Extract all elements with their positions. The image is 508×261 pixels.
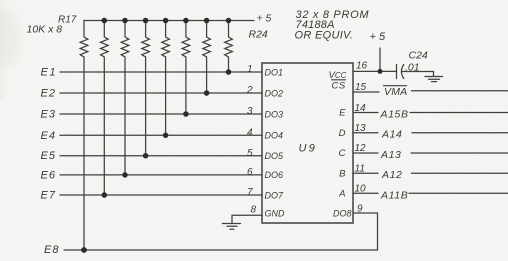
svg-text:E3: E3	[41, 109, 56, 121]
svg-text:A: A	[338, 188, 345, 199]
svg-text:A15B: A15B	[380, 109, 409, 121]
svg-text:12: 12	[355, 143, 367, 154]
svg-text:6: 6	[247, 167, 253, 178]
resistor R17-5	[162, 21, 170, 136]
svg-text:13: 13	[355, 123, 367, 134]
svg-text:E: E	[339, 108, 346, 119]
resistor R24	[225, 21, 233, 73]
junction dots on +5 bus	[102, 18, 232, 24]
wire E1 to pin 1	[60, 71, 262, 73]
svg-text:C24: C24	[409, 50, 428, 62]
wire E3 to pin 3	[60, 113, 262, 115]
wire pin 15 stub	[353, 91, 379, 93]
svg-text:10: 10	[355, 184, 367, 195]
svg-text:DO1: DO1	[265, 67, 284, 77]
resistor R17-3	[121, 21, 129, 175]
+5 feed wire	[379, 48, 381, 71]
wire pin 13 stub	[353, 132, 378, 134]
svg-text:OR EQUIV.: OR EQUIV.	[295, 30, 354, 42]
wire C24 to ground	[402, 72, 434, 77]
svg-text:+ 5: + 5	[257, 13, 272, 25]
wire E2 to pin 2	[60, 92, 262, 94]
svg-text:A12: A12	[381, 169, 402, 181]
svg-text:VMA: VMA	[384, 86, 407, 98]
svg-text:10K x 8: 10K x 8	[27, 24, 63, 36]
resistor R17-6	[182, 21, 190, 115]
svg-text:B: B	[339, 169, 346, 180]
svg-text:11: 11	[355, 163, 365, 174]
wire E7 to pin 7	[60, 194, 262, 196]
svg-text:.01: .01	[405, 61, 420, 73]
svg-text:C: C	[339, 148, 346, 159]
svg-text:DO6: DO6	[265, 170, 284, 180]
wire pin 16 to +5 and C24	[353, 70, 396, 72]
svg-text:A13: A13	[380, 149, 401, 161]
svg-text:2: 2	[246, 85, 253, 96]
resistor R17-4	[142, 21, 150, 156]
svg-text:R24: R24	[249, 29, 268, 41]
svg-text:A11B: A11B	[380, 190, 408, 202]
svg-text:DO2: DO2	[265, 88, 284, 98]
svg-text:VCC: VCC	[329, 70, 347, 81]
overline VMA	[384, 85, 407, 87]
svg-text:DO4: DO4	[265, 131, 284, 141]
svg-text:+ 5: + 5	[370, 31, 386, 43]
wire E8 to pin 9	[64, 213, 378, 250]
wire net A14	[412, 132, 508, 134]
junction dots on E lines	[81, 69, 231, 253]
svg-text:1: 1	[247, 64, 253, 75]
overline CS (inside U9)	[332, 79, 346, 81]
svg-text:3: 3	[247, 106, 253, 117]
resistor R17-7	[203, 21, 211, 94]
svg-text:GND: GND	[265, 209, 286, 219]
wire net VMA	[412, 90, 508, 92]
IC U9 body	[262, 63, 353, 223]
svg-text:U9: U9	[299, 142, 317, 154]
svg-text:9: 9	[357, 204, 363, 215]
svg-text:DO5: DO5	[265, 151, 285, 161]
wire pin 10 stub	[353, 192, 378, 194]
svg-text:E7: E7	[41, 190, 56, 202]
svg-text:DO3: DO3	[265, 109, 284, 119]
svg-text:16: 16	[356, 60, 368, 71]
wire pin 8 to ground	[232, 215, 262, 223]
wire net A13	[411, 152, 508, 154]
svg-text:E5: E5	[41, 150, 56, 162]
svg-text:15: 15	[355, 82, 367, 93]
svg-text:DO7: DO7	[265, 190, 285, 200]
wire pin 12 stub	[353, 152, 378, 154]
svg-text:5: 5	[247, 148, 253, 159]
wire net A11B	[409, 192, 508, 194]
resistor R17-1	[80, 21, 88, 251]
resistor R17-2	[101, 21, 109, 196]
wire E5 to pin 5	[60, 155, 262, 157]
svg-text:DO8: DO8	[333, 209, 352, 219]
ground (C24)	[425, 77, 443, 82]
wire net A15B	[410, 112, 508, 114]
svg-text:CS: CS	[332, 81, 346, 92]
svg-text:7: 7	[247, 187, 253, 198]
svg-text:D: D	[339, 128, 346, 139]
svg-text:E6: E6	[41, 169, 56, 181]
svg-text:14: 14	[355, 103, 367, 114]
wire net A12	[412, 172, 508, 174]
wire E6 to pin 6	[60, 174, 262, 176]
wire pin 14 stub	[353, 112, 378, 114]
svg-text:E2: E2	[41, 88, 56, 100]
ground (pin 8)	[222, 224, 240, 230]
svg-text:E1: E1	[41, 67, 57, 79]
svg-text:8: 8	[250, 205, 256, 216]
svg-text:4: 4	[247, 128, 253, 139]
wire E4 to pin 4	[60, 134, 262, 136]
svg-text:E4: E4	[41, 130, 56, 142]
junction dot pin16/+5	[378, 69, 383, 74]
wire pin 11 stub	[353, 172, 378, 174]
svg-text:A14: A14	[381, 129, 402, 141]
capacitor C24	[397, 65, 404, 79]
+5 supply bus wire	[84, 20, 254, 22]
svg-text:E8: E8	[44, 244, 59, 256]
